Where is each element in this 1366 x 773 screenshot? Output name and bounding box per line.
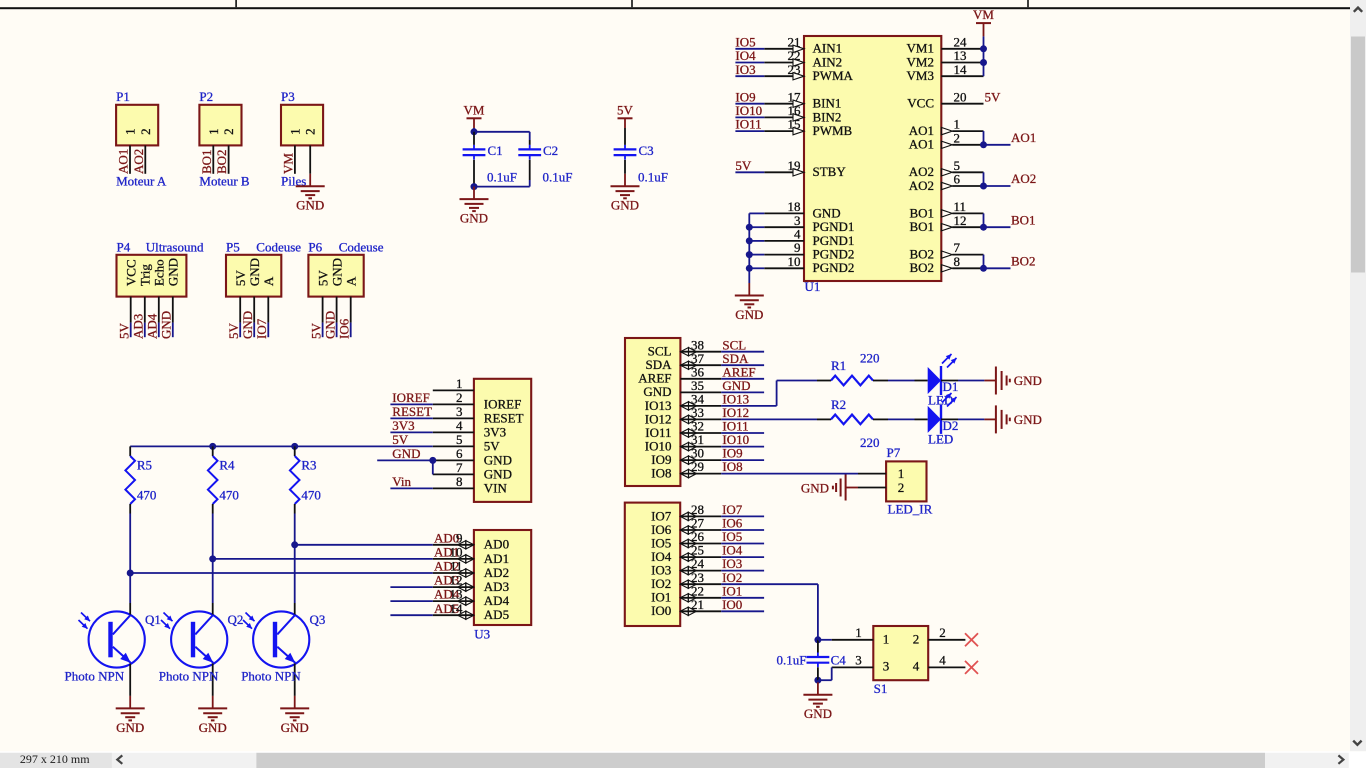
- svg-text:1: 1: [883, 631, 890, 646]
- svg-text:5V: 5V: [735, 158, 752, 173]
- svg-text:GND: GND: [484, 452, 512, 467]
- svg-text:220: 220: [860, 351, 880, 366]
- svg-text:AO1: AO1: [909, 137, 934, 152]
- svg-text:AD3: AD3: [131, 314, 146, 339]
- svg-text:PWMB: PWMB: [813, 123, 853, 138]
- svg-text:11: 11: [450, 559, 463, 574]
- svg-text:IO6: IO6: [337, 318, 352, 339]
- svg-text:VM: VM: [464, 102, 485, 117]
- svg-text:GND: GND: [801, 480, 829, 495]
- svg-text:6: 6: [954, 172, 961, 187]
- svg-text:GND: GND: [199, 720, 227, 735]
- svg-text:470: 470: [301, 488, 321, 503]
- svg-text:220: 220: [860, 435, 880, 450]
- svg-text:GND: GND: [484, 466, 512, 481]
- svg-text:5V: 5V: [484, 438, 501, 453]
- svg-text:GND: GND: [247, 258, 262, 286]
- svg-text:GND: GND: [392, 446, 420, 461]
- svg-text:1: 1: [206, 128, 221, 135]
- svg-text:P1: P1: [116, 89, 130, 104]
- svg-text:0.1uF: 0.1uF: [487, 170, 517, 185]
- svg-text:IOREF: IOREF: [484, 396, 522, 411]
- svg-text:23: 23: [788, 62, 801, 77]
- svg-text:IO0: IO0: [651, 603, 671, 618]
- svg-text:GND: GND: [611, 198, 639, 213]
- svg-text:Moteur B: Moteur B: [199, 174, 250, 189]
- svg-text:S1: S1: [874, 681, 888, 696]
- svg-text:BO1: BO1: [199, 149, 214, 174]
- svg-text:GND: GND: [159, 311, 174, 339]
- svg-text:VCC: VCC: [123, 259, 138, 286]
- svg-text:IO8: IO8: [722, 459, 742, 474]
- svg-text:P2: P2: [199, 89, 213, 104]
- svg-text:2: 2: [939, 625, 946, 640]
- svg-text:297 x 210 mm: 297 x 210 mm: [20, 752, 90, 766]
- svg-text:Photo NPN: Photo NPN: [65, 668, 125, 683]
- svg-text:R5: R5: [137, 458, 152, 473]
- svg-text:IO3: IO3: [735, 62, 755, 77]
- svg-text:1: 1: [898, 466, 905, 481]
- svg-text:8: 8: [456, 474, 463, 489]
- svg-text:P3: P3: [281, 89, 295, 104]
- svg-text:AO1: AO1: [116, 149, 131, 174]
- svg-text:U1: U1: [805, 279, 821, 294]
- svg-text:19: 19: [788, 158, 801, 173]
- svg-text:GND: GND: [813, 205, 841, 220]
- svg-text:VM: VM: [973, 7, 994, 22]
- svg-text:GND: GND: [281, 720, 309, 735]
- svg-text:Photo NPN: Photo NPN: [159, 668, 219, 683]
- svg-text:AD4: AD4: [145, 313, 160, 339]
- svg-text:R2: R2: [831, 397, 846, 412]
- svg-text:AO1: AO1: [1011, 130, 1036, 145]
- svg-text:C3: C3: [639, 143, 654, 158]
- svg-text:2: 2: [954, 130, 961, 145]
- svg-text:1: 1: [456, 376, 463, 391]
- svg-text:12: 12: [954, 213, 967, 228]
- svg-text:GND: GND: [1014, 412, 1042, 427]
- svg-text:14: 14: [954, 62, 968, 77]
- svg-text:GND: GND: [166, 258, 181, 286]
- svg-text:7: 7: [456, 460, 463, 475]
- svg-text:GND: GND: [296, 198, 324, 213]
- svg-text:2: 2: [221, 128, 236, 135]
- svg-text:C2: C2: [543, 143, 558, 158]
- svg-text:GND: GND: [460, 211, 488, 226]
- svg-text:5V: 5V: [315, 270, 330, 287]
- svg-text:13: 13: [450, 587, 463, 602]
- svg-text:GND: GND: [322, 311, 337, 339]
- svg-text:20: 20: [954, 89, 967, 104]
- svg-text:PGND2: PGND2: [813, 260, 855, 275]
- svg-text:GND: GND: [1014, 373, 1042, 388]
- svg-text:0.1uF: 0.1uF: [777, 652, 807, 667]
- svg-text:2: 2: [456, 390, 463, 405]
- svg-text:0.1uF: 0.1uF: [638, 170, 668, 185]
- svg-text:IO7: IO7: [254, 318, 269, 339]
- svg-text:BO2: BO2: [214, 149, 229, 174]
- svg-text:Codeuse: Codeuse: [339, 240, 384, 255]
- svg-text:GND: GND: [240, 311, 255, 339]
- svg-text:2: 2: [898, 480, 905, 495]
- svg-text:LED: LED: [928, 432, 953, 447]
- svg-text:RESET: RESET: [484, 410, 524, 425]
- svg-text:5V: 5V: [233, 270, 248, 287]
- svg-text:12: 12: [450, 573, 463, 588]
- svg-text:14: 14: [450, 601, 464, 616]
- svg-text:3: 3: [456, 404, 463, 419]
- svg-text:VM: VM: [280, 153, 295, 174]
- svg-text:P6: P6: [308, 240, 322, 255]
- svg-text:P5: P5: [226, 240, 240, 255]
- svg-text:0.1uF: 0.1uF: [543, 170, 573, 185]
- svg-text:Echo: Echo: [152, 259, 167, 286]
- svg-text:AD3: AD3: [484, 579, 509, 594]
- svg-text:9: 9: [456, 530, 463, 545]
- svg-text:Q1: Q1: [145, 612, 161, 627]
- svg-text:AD0: AD0: [484, 537, 509, 552]
- svg-text:BO2: BO2: [909, 260, 934, 275]
- svg-text:R1: R1: [831, 358, 846, 373]
- svg-text:R3: R3: [301, 458, 316, 473]
- svg-text:A: A: [343, 276, 358, 286]
- svg-text:AO2: AO2: [909, 178, 934, 193]
- svg-text:18: 18: [788, 199, 801, 214]
- svg-text:4: 4: [456, 418, 463, 433]
- svg-text:Vin: Vin: [392, 474, 411, 489]
- svg-text:IO11: IO11: [735, 117, 761, 132]
- svg-text:Q3: Q3: [310, 612, 326, 627]
- svg-text:Photo NPN: Photo NPN: [241, 668, 301, 683]
- svg-text:A: A: [261, 276, 276, 286]
- svg-text:GND: GND: [804, 706, 832, 721]
- svg-text:GND: GND: [329, 258, 344, 286]
- svg-text:VCC: VCC: [907, 96, 934, 111]
- svg-text:4: 4: [913, 659, 920, 674]
- svg-text:1: 1: [287, 128, 302, 135]
- svg-text:PWMA: PWMA: [813, 68, 854, 83]
- svg-text:4: 4: [939, 652, 946, 667]
- svg-text:BO1: BO1: [1011, 212, 1036, 227]
- svg-text:29: 29: [691, 459, 704, 474]
- svg-text:21: 21: [691, 597, 704, 612]
- svg-text:RESET: RESET: [392, 404, 432, 419]
- svg-text:LED_IR: LED_IR: [888, 501, 933, 516]
- svg-text:5V: 5V: [117, 323, 132, 340]
- svg-text:5V: 5V: [617, 102, 634, 117]
- svg-text:STBY: STBY: [813, 164, 847, 179]
- svg-text:Moteur A: Moteur A: [116, 174, 167, 189]
- svg-text:2: 2: [913, 631, 920, 646]
- svg-text:3V3: 3V3: [392, 418, 414, 433]
- svg-text:BO1: BO1: [909, 205, 934, 220]
- svg-text:C1: C1: [488, 143, 503, 158]
- svg-text:VIN: VIN: [484, 480, 508, 495]
- svg-text:470: 470: [137, 488, 157, 503]
- svg-text:15: 15: [788, 117, 801, 132]
- svg-text:R4: R4: [219, 458, 235, 473]
- svg-text:5V: 5V: [985, 89, 1002, 104]
- svg-text:AD4: AD4: [484, 593, 510, 608]
- svg-text:10: 10: [788, 254, 801, 269]
- svg-text:5: 5: [456, 432, 463, 447]
- svg-text:5V: 5V: [392, 432, 409, 447]
- svg-text:IO8: IO8: [651, 466, 671, 481]
- svg-text:AD1: AD1: [484, 551, 509, 566]
- svg-text:C4: C4: [831, 652, 847, 667]
- svg-text:IOREF: IOREF: [392, 390, 430, 405]
- svg-text:6: 6: [456, 446, 463, 461]
- svg-text:1: 1: [123, 128, 138, 135]
- svg-text:P4: P4: [117, 240, 131, 255]
- svg-text:GND: GND: [735, 307, 763, 322]
- svg-text:VM3: VM3: [907, 68, 934, 83]
- svg-text:11: 11: [954, 199, 967, 214]
- svg-text:Ultrasound: Ultrasound: [146, 240, 204, 255]
- svg-text:1: 1: [855, 625, 862, 640]
- svg-text:Codeuse: Codeuse: [256, 240, 301, 255]
- svg-text:BO1: BO1: [909, 219, 934, 234]
- svg-text:2: 2: [303, 128, 318, 135]
- svg-text:AO2: AO2: [1011, 171, 1036, 186]
- svg-text:AD2: AD2: [484, 565, 509, 580]
- svg-text:BO2: BO2: [1011, 254, 1036, 269]
- svg-text:10: 10: [450, 545, 463, 560]
- svg-text:U3: U3: [474, 626, 490, 641]
- svg-text:8: 8: [954, 254, 961, 269]
- svg-text:3: 3: [855, 652, 862, 667]
- svg-text:GND: GND: [116, 720, 144, 735]
- svg-text:Q2: Q2: [228, 612, 244, 627]
- svg-text:AD5: AD5: [484, 607, 509, 622]
- svg-text:Trig: Trig: [137, 264, 152, 286]
- svg-text:AO2: AO2: [131, 149, 146, 174]
- svg-text:P7: P7: [887, 445, 901, 460]
- svg-text:2: 2: [138, 128, 153, 135]
- svg-text:5V: 5V: [308, 323, 323, 340]
- svg-text:IO0: IO0: [722, 597, 742, 612]
- svg-text:470: 470: [219, 488, 239, 503]
- svg-text:3: 3: [883, 659, 890, 674]
- svg-text:3V3: 3V3: [484, 424, 506, 439]
- svg-text:5V: 5V: [226, 323, 241, 340]
